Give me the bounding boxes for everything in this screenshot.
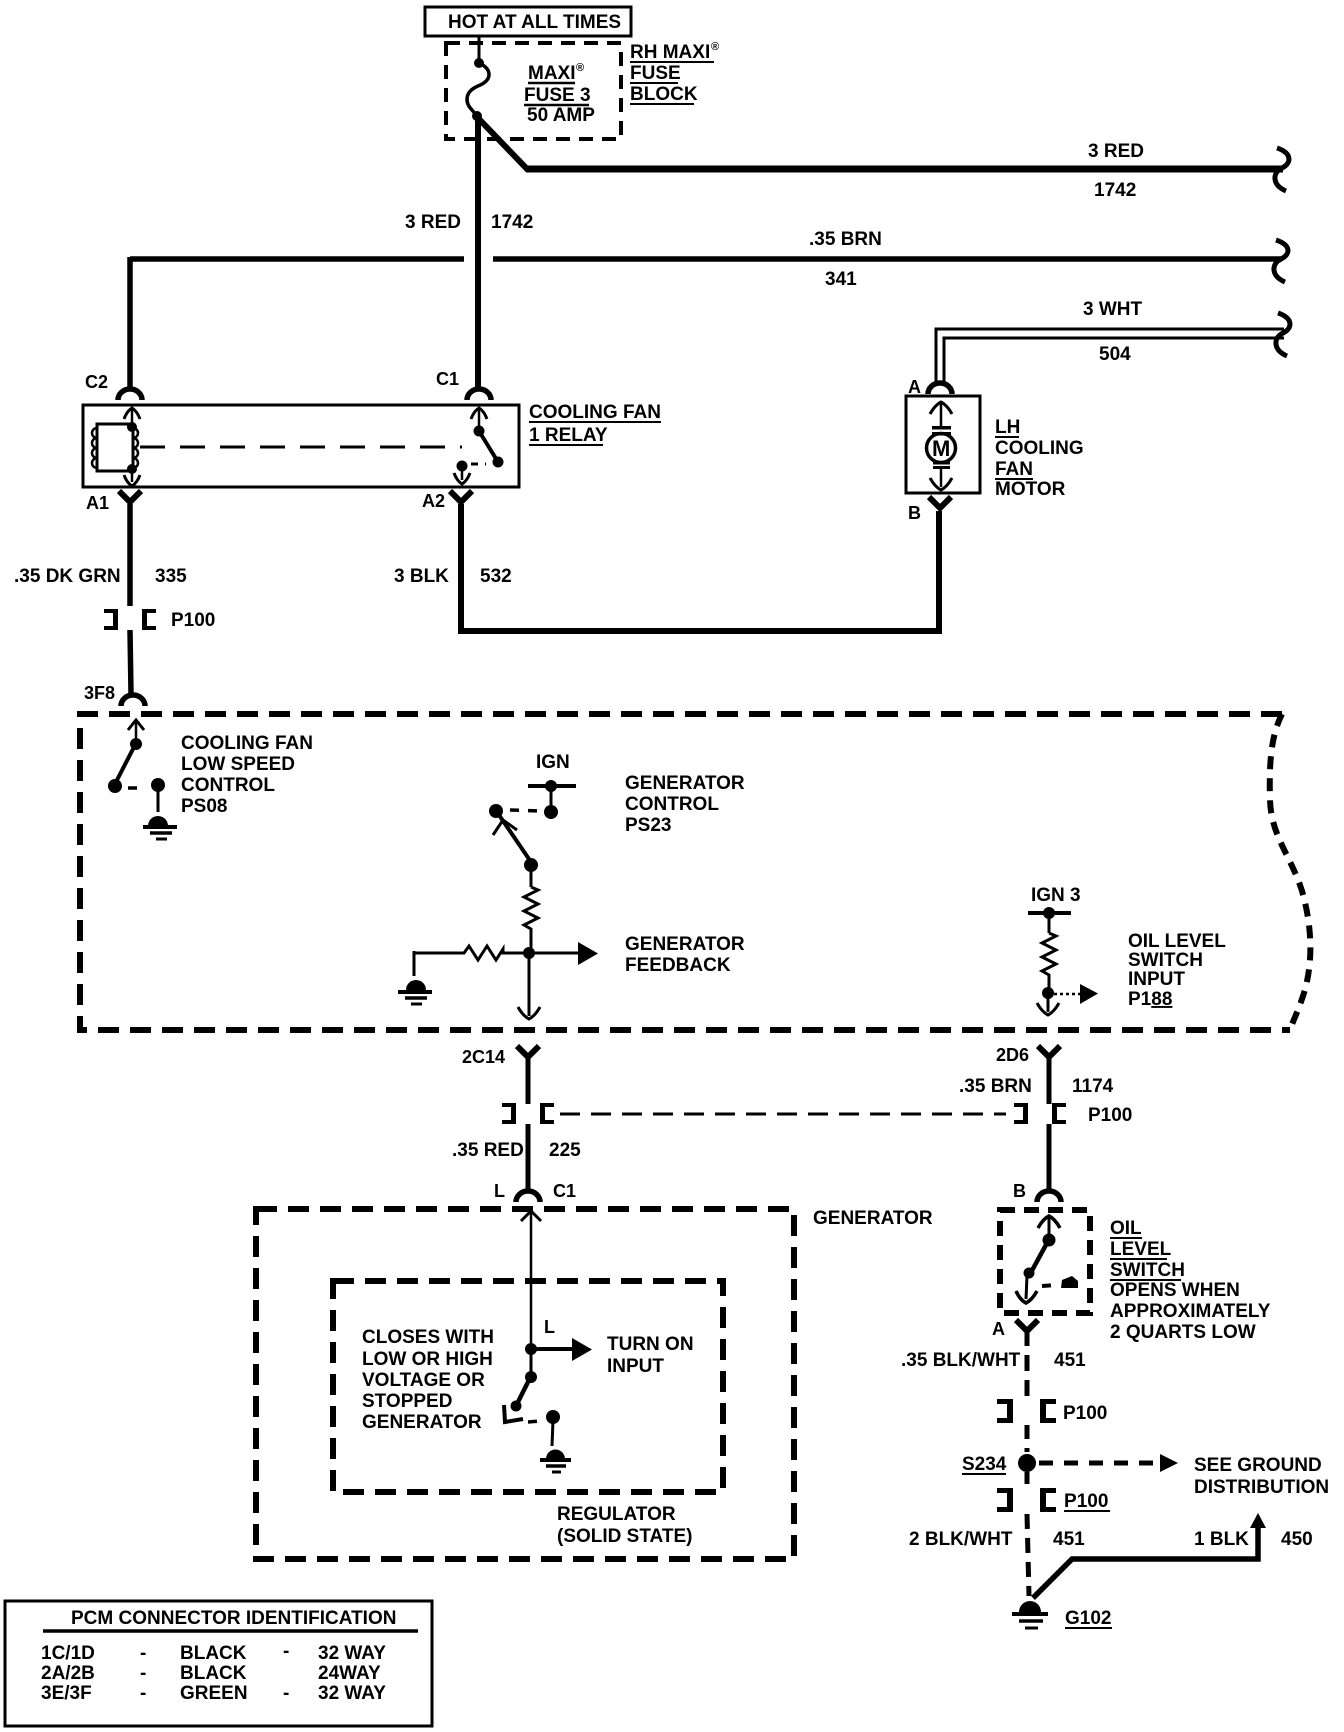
svg-text:(SOLID STATE): (SOLID STATE) — [557, 1526, 692, 1547]
wire 2 BLK/WHT 451 dashed to G102 — [1027, 1514, 1029, 1596]
svg-text:GENERATOR: GENERATOR — [362, 1412, 482, 1433]
label SEE GROUND DISTRIBUTION — [1194, 1455, 1329, 1498]
svg-text:3 RED: 3 RED — [1088, 141, 1144, 162]
wire .35 BRN 1174 lower — [1047, 1124, 1052, 1189]
generator feedback node: junction dot — [523, 947, 535, 959]
resistor (oil level input, vertical) — [1042, 933, 1056, 988]
label CLOSES WITH LOW OR HIGH VOLTAGE OR STOPPED GENERATOR — [362, 1327, 494, 1433]
svg-text:C1: C1 — [436, 369, 459, 389]
PS23 generator control switch — [489, 780, 576, 887]
svg-text:P100: P100 — [171, 610, 215, 631]
ground (regulator) — [540, 1450, 571, 1473]
motor LH COOLING FAN MOTOR box — [906, 396, 980, 493]
svg-text:451: 451 — [1053, 1529, 1085, 1550]
svg-text:504: 504 — [1099, 344, 1131, 365]
PCM connector identification table — [5, 1601, 432, 1726]
connector cap below A2 — [450, 491, 472, 502]
connector cap at oil switch B — [1037, 1191, 1061, 1202]
connector P100 (below S234) — [997, 1488, 1110, 1512]
svg-text:®: ® — [576, 62, 584, 74]
svg-text:MOTOR: MOTOR — [995, 479, 1066, 500]
PS08 switch cooling fan low speed control — [108, 720, 165, 812]
svg-text:532: 532 — [480, 566, 512, 587]
svg-text:2 QUARTS LOW: 2 QUARTS LOW — [1110, 1322, 1256, 1343]
wire 3F8 below P100 — [130, 630, 131, 693]
fuse element squiggle — [467, 58, 489, 121]
relay switch — [454, 408, 504, 484]
svg-text:®: ® — [711, 41, 719, 53]
label TURN ON INPUT — [607, 1334, 694, 1377]
label COOLING FAN LOW SPEED CONTROL PS08 — [181, 733, 313, 817]
arrow generator feedback — [578, 942, 598, 965]
wire .35 DK GRN 335 from A1 — [127, 504, 133, 606]
wire 3 BLK 532 from A2 to motor B — [461, 504, 939, 631]
svg-text:451: 451 — [1054, 1350, 1086, 1371]
connector cap below A1 — [119, 491, 141, 502]
svg-text:.35 BLK/WHT: .35 BLK/WHT — [901, 1350, 1021, 1371]
wire from feedback node to ground — [413, 951, 416, 976]
svg-text:B: B — [908, 503, 921, 523]
svg-text:REGULATOR: REGULATOR — [557, 1504, 676, 1525]
label OIL LEVEL SWITCH OPENS WHEN APPROXIMATELY 2 QUARTS LOW — [1110, 1218, 1271, 1343]
svg-text:MAXI: MAXI — [528, 63, 576, 84]
svg-text:C1: C1 — [553, 1181, 576, 1201]
svg-text:HOT AT ALL TIMES: HOT AT ALL TIMES — [448, 12, 621, 33]
svg-text:FUSE: FUSE — [630, 63, 681, 84]
connector cap at C1 — [467, 389, 491, 400]
wire from hot box to fuse — [478, 36, 481, 61]
svg-text:CONTROL: CONTROL — [625, 794, 719, 815]
wire 3 RED 1742 horizontal to right edge — [526, 166, 1283, 173]
svg-text:BLOCK: BLOCK — [630, 84, 698, 105]
relay coil pin arrow A1 — [124, 464, 140, 486]
svg-text:450: 450 — [1281, 1529, 1313, 1550]
ground (PS08) — [143, 816, 177, 839]
svg-text:L: L — [494, 1181, 505, 1201]
svg-text:3 WHT: 3 WHT — [1083, 299, 1143, 320]
svg-text:GENERATOR: GENERATOR — [813, 1208, 933, 1229]
relay mechanical link dashed — [140, 446, 462, 449]
wire L input into regulator — [521, 1211, 541, 1346]
oil level input node dot — [1042, 987, 1054, 999]
label REGULATOR (SOLID STATE) — [557, 1504, 692, 1547]
connector cap below motor B — [929, 497, 951, 508]
svg-text:.35 BRN: .35 BRN — [809, 229, 882, 250]
fuse F MAXI FUSE 3 50 AMP label — [524, 62, 595, 126]
IGN 3 feed bar — [1028, 907, 1071, 933]
PCM module dashed box — [80, 714, 1290, 1030]
svg-text:INPUT: INPUT — [1128, 969, 1185, 990]
ground G102 — [1012, 1601, 1048, 1628]
svg-text:32 WAY: 32 WAY — [318, 1643, 386, 1664]
svg-text:IGN: IGN — [536, 752, 570, 773]
svg-text:.35 DK GRN: .35 DK GRN — [14, 566, 121, 587]
svg-text:M: M — [932, 436, 950, 461]
svg-text:2D6: 2D6 — [996, 1045, 1029, 1065]
dashed arrow to ground distribution — [1039, 1454, 1178, 1472]
PCM dashed box wavy right edge — [1270, 714, 1311, 1030]
oil level switch symbol — [1016, 1216, 1078, 1303]
connector P100 (at 2C14 wire) — [502, 1103, 554, 1124]
connector cap below oil switch A — [1016, 1320, 1038, 1331]
svg-text:B: B — [1013, 1181, 1026, 1201]
fuse block dashed box — [446, 43, 621, 139]
relay coil — [92, 424, 138, 471]
svg-text:3E/3F: 3E/3F — [41, 1683, 92, 1704]
svg-text:LEVEL: LEVEL — [1110, 1239, 1172, 1260]
svg-text:225: 225 — [549, 1140, 581, 1161]
svg-text:BLACK: BLACK — [180, 1663, 247, 1684]
svg-text:.35 RED: .35 RED — [452, 1140, 524, 1161]
regulator dashed box — [333, 1281, 723, 1492]
label G102 — [1065, 1608, 1112, 1629]
svg-text:50 AMP: 50 AMP — [527, 105, 595, 126]
svg-text:2A/2B: 2A/2B — [41, 1663, 95, 1684]
svg-text:GREEN: GREEN — [180, 1683, 248, 1704]
svg-text:3F8: 3F8 — [84, 683, 115, 703]
svg-text:OPENS WHEN: OPENS WHEN — [1110, 1280, 1240, 1301]
wire 2D6 upper — [1047, 1056, 1052, 1104]
svg-text:SWITCH: SWITCH — [1128, 950, 1203, 971]
svg-text:CLOSES WITH: CLOSES WITH — [362, 1327, 494, 1348]
label GENERATOR FEEDBACK — [625, 934, 745, 976]
label S234 — [962, 1454, 1007, 1475]
svg-text:COOLING: COOLING — [995, 438, 1084, 459]
svg-text:S234: S234 — [962, 1454, 1007, 1475]
wire .35 RED lower — [526, 1124, 531, 1189]
wire .35 BRN 341 horizontal — [130, 256, 1282, 262]
svg-text:1C/1D: 1C/1D — [41, 1643, 95, 1664]
wire .35 RED 225 upper — [526, 1056, 531, 1104]
svg-text:-: - — [283, 1683, 289, 1704]
svg-text:1 RELAY: 1 RELAY — [529, 425, 608, 446]
RH MAXIFUSE BLOCK label — [630, 41, 719, 105]
svg-text:335: 335 — [155, 566, 187, 587]
svg-text:P188: P188 — [1128, 989, 1172, 1010]
label OIL LEVEL SWITCH INPUT P188 — [1128, 931, 1226, 1010]
wire from .35 BRN down to relay C2 — [127, 257, 133, 388]
svg-text:FEEDBACK: FEEDBACK — [625, 955, 731, 976]
svg-text:PCM CONNECTOR IDENTIFICATION: PCM CONNECTOR IDENTIFICATION — [71, 1608, 396, 1629]
svg-text:A2: A2 — [422, 491, 445, 511]
svg-text:1174: 1174 — [1072, 1076, 1114, 1097]
svg-text:L: L — [544, 1317, 555, 1337]
svg-text:-: - — [140, 1663, 146, 1684]
svg-text:LH: LH — [995, 417, 1020, 438]
connector cap at C2 — [118, 389, 142, 400]
wire to S234 dashed — [1025, 1425, 1030, 1452]
svg-text:GENERATOR: GENERATOR — [625, 934, 745, 955]
svg-text:LOW SPEED: LOW SPEED — [181, 754, 295, 775]
svg-text:P100: P100 — [1063, 1403, 1107, 1424]
oil level switch dashed box — [1000, 1210, 1090, 1313]
splice S234 — [1018, 1454, 1036, 1472]
resistor (PS23 internal, vertical) — [524, 887, 538, 948]
wire continuation squiggle right end of 3 RED — [1275, 148, 1289, 191]
connector cap at generator L — [516, 1191, 540, 1202]
connector cap below 2C14 — [517, 1046, 539, 1057]
svg-text:2 BLK/WHT: 2 BLK/WHT — [909, 1529, 1013, 1550]
svg-text:A: A — [992, 1319, 1005, 1339]
arrow oil level switch input — [1048, 984, 1098, 1004]
svg-text:IGN 3: IGN 3 — [1031, 885, 1081, 906]
connector cap at motor A — [928, 383, 952, 394]
relay coil pin arrow C2 — [124, 408, 140, 432]
svg-text:SWITCH: SWITCH — [1110, 1260, 1185, 1281]
svg-text:PS08: PS08 — [181, 796, 227, 817]
svg-text:3 BLK: 3 BLK — [394, 566, 449, 587]
svg-text:24WAY: 24WAY — [318, 1663, 381, 1684]
svg-text:VOLTAGE OR: VOLTAGE OR — [362, 1370, 485, 1391]
svg-text:-: - — [140, 1683, 146, 1704]
svg-text:CONTROL: CONTROL — [181, 775, 275, 796]
regulator junction dot — [525, 1343, 537, 1355]
wire 1 BLK 450 — [1033, 1513, 1266, 1598]
svg-text:P100: P100 — [1088, 1105, 1132, 1126]
label GENERATOR CONTROL PS23 — [625, 773, 745, 836]
svg-text:C2: C2 — [85, 372, 108, 392]
svg-text:3 RED: 3 RED — [405, 212, 461, 233]
wire continuation squiggle right end of .35 BRN — [1274, 240, 1288, 282]
svg-text:DISTRIBUTION: DISTRIBUTION — [1194, 1477, 1329, 1498]
ground (feedback) — [398, 980, 432, 1004]
power source box HOT AT ALL TIMES — [425, 7, 631, 36]
generator dashed box — [256, 1209, 794, 1559]
svg-text:RH MAXI: RH MAXI — [630, 42, 710, 63]
svg-text:LOW OR HIGH: LOW OR HIGH — [362, 1349, 493, 1370]
svg-text:A: A — [908, 377, 921, 397]
svg-text:FUSE 3: FUSE 3 — [524, 85, 591, 106]
wire 2C14 output with down arrow — [518, 953, 540, 1019]
motor symbol — [927, 402, 956, 490]
regulator switch — [504, 1349, 560, 1446]
svg-text:-: - — [283, 1641, 289, 1662]
arrow turn on input — [531, 1338, 592, 1361]
svg-text:COOLING FAN: COOLING FAN — [529, 402, 661, 423]
svg-text:.35 BRN: .35 BRN — [959, 1076, 1032, 1097]
svg-text:PS23: PS23 — [625, 815, 671, 836]
relay label COOLING FAN 1 RELAY — [529, 402, 661, 446]
wire 2D6 output with down arrow — [1037, 993, 1059, 1015]
svg-text:32 WAY: 32 WAY — [318, 1683, 386, 1704]
connector cap at 3F8 — [121, 695, 145, 706]
svg-text:FAN: FAN — [995, 459, 1033, 480]
svg-text:P100: P100 — [1064, 1491, 1108, 1512]
svg-text:1742: 1742 — [491, 212, 533, 233]
wire fuse output down to relay C1 — [475, 116, 481, 388]
svg-text:TURN ON: TURN ON — [607, 1334, 694, 1355]
connector P100 (at 2D6 wire) — [1014, 1103, 1132, 1126]
svg-text:341: 341 — [825, 269, 857, 290]
svg-text:A1: A1 — [86, 493, 109, 513]
svg-text:1 BLK: 1 BLK — [1194, 1529, 1249, 1550]
wire below S234 dashed — [1025, 1472, 1030, 1487]
svg-text:1742: 1742 — [1094, 180, 1136, 201]
dashed splice line between P100 halves — [560, 1113, 1006, 1116]
svg-text:COOLING FAN: COOLING FAN — [181, 733, 313, 754]
svg-text:OIL LEVEL: OIL LEVEL — [1128, 931, 1226, 952]
motor label LH COOLING FAN MOTOR — [995, 417, 1084, 500]
op: cooling fan 1 relay box — [83, 405, 519, 487]
wire diagonal from fuse to 3 RED feed — [478, 118, 528, 170]
svg-text:G102: G102 — [1065, 1608, 1111, 1629]
connector P100 (above S234) — [997, 1399, 1107, 1424]
svg-text:SEE GROUND: SEE GROUND — [1194, 1455, 1322, 1476]
resistor (feedback, horizontal) and wire to ground — [414, 946, 578, 960]
svg-text:INPUT: INPUT — [607, 1356, 664, 1377]
svg-text:-: - — [140, 1643, 146, 1664]
svg-text:OIL: OIL — [1110, 1218, 1142, 1239]
wire 3 WHT 504 double line — [936, 329, 1284, 382]
svg-text:2C14: 2C14 — [462, 1047, 505, 1067]
svg-text:GENERATOR: GENERATOR — [625, 773, 745, 794]
wire continuation squiggle right end of 3 WHT — [1276, 313, 1290, 356]
svg-text:BLACK: BLACK — [180, 1643, 247, 1664]
connector cap below 2D6 — [1038, 1046, 1060, 1057]
connector P100 (left wire) — [104, 609, 215, 631]
svg-text:STOPPED: STOPPED — [362, 1391, 452, 1412]
wire .35 BLK/WHT 451 dashed — [1025, 1330, 1030, 1397]
svg-text:APPROXIMATELY: APPROXIMATELY — [1110, 1301, 1271, 1322]
